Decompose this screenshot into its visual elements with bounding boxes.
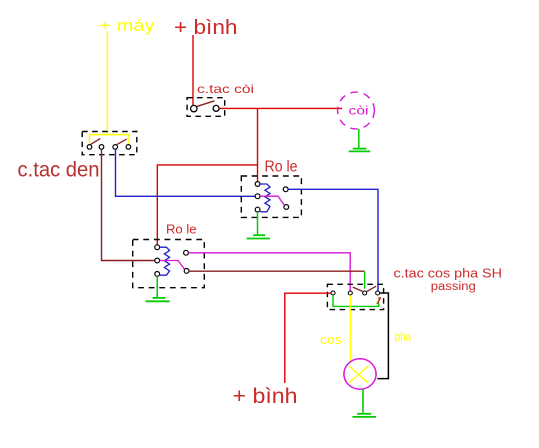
node +bình label (top) xyxy=(174,17,238,39)
relay K2 box xyxy=(133,240,205,288)
switch S1 terminal 1 xyxy=(191,105,197,111)
horn còi dashed circle xyxy=(338,92,375,129)
wire green drop into cos/pha switch terminal 3 xyxy=(364,271,366,289)
switch S2 terminal 3 xyxy=(113,145,118,150)
switch S2 arm a xyxy=(91,139,100,145)
switch S3 label c.tac cos pha SH xyxy=(394,266,503,281)
node +máy label xyxy=(100,17,156,35)
svg-text:+ bình: + bình xyxy=(174,17,238,39)
wire red from +bình down to c.tac còi xyxy=(192,35,194,105)
svg-text:c.tac cos pha SH: c.tac cos pha SH xyxy=(394,266,503,281)
ground under relay K2 xyxy=(146,276,170,301)
switch S3 pha terminal xyxy=(376,291,380,295)
switch S1 terminal 2 xyxy=(213,105,219,111)
relay K2 armature xyxy=(160,261,185,270)
node +bình label (bottom) xyxy=(233,385,298,408)
svg-text:c.tac còi: c.tac còi xyxy=(197,82,254,96)
passing arrow red xyxy=(377,297,381,304)
svg-text:passing: passing xyxy=(431,281,476,293)
wire blue from S2 to relay K1 common xyxy=(116,149,256,196)
net pha label xyxy=(395,330,412,344)
switch S1 arm xyxy=(197,101,215,107)
switch S2 terminal 2 xyxy=(99,145,104,150)
wire yellow header inside c.tac den xyxy=(90,135,130,145)
switch S2 arm b xyxy=(116,139,126,145)
relay K2 NC contact terminal xyxy=(184,250,189,255)
switch S3 cos terminal xyxy=(348,291,352,295)
wire red from S1 to còi horn xyxy=(219,107,342,109)
relay K1 NO contact terminal xyxy=(284,205,289,210)
wire green passing link xyxy=(333,295,379,306)
svg-text:cos: cos xyxy=(320,332,342,347)
switch S1 c.tac còi label xyxy=(197,82,254,96)
switch S1 c.tac còi box xyxy=(187,98,225,117)
ground under relay K1 xyxy=(247,212,270,239)
svg-text:còi: còi xyxy=(349,104,369,118)
switch S3 battery terminal xyxy=(331,291,335,295)
lamp bulb circle xyxy=(344,359,376,389)
relay K2 coil terminal bottom xyxy=(155,272,160,277)
relay K2 coil terminal top xyxy=(155,245,160,250)
switch S3 box xyxy=(327,284,383,309)
relay K1 armature xyxy=(260,196,284,205)
relay K1 coil terminal bottom xyxy=(255,207,260,212)
relay K1 coil terminal top xyxy=(255,182,260,187)
relay K1 label Ro le xyxy=(265,159,298,176)
relay K2 common terminal xyxy=(155,258,160,263)
wire maroon from S2 to relay K2 common xyxy=(102,149,155,260)
switch S2 c.tac den label xyxy=(18,159,100,182)
ground under lamp xyxy=(352,389,376,417)
horn còi label xyxy=(349,104,369,118)
wire red branch to relay K2 coil xyxy=(157,165,257,245)
switch S2 c.tac den box xyxy=(82,132,137,155)
wire red from +bình (bottom) to switch S3 xyxy=(285,293,331,383)
wire maroon from relay K2 contact toward cos/pha switch xyxy=(189,270,365,272)
wire yellow from +máy down to c.tac den xyxy=(106,31,108,135)
ground under còi xyxy=(349,129,371,152)
svg-text:+ bình: + bình xyxy=(233,385,298,408)
switch S3 armature V left xyxy=(353,287,363,291)
relay K1 box xyxy=(241,176,301,217)
relay K1 NC contact terminal xyxy=(283,187,288,192)
relay K1 coil zigzag xyxy=(260,184,270,212)
relay K1 common terminal xyxy=(255,194,260,199)
switch S3 label passing xyxy=(431,281,476,293)
switch S2 terminal 1 xyxy=(87,145,92,150)
svg-text:Ro le: Ro le xyxy=(265,159,298,176)
svg-text:Ro le: Ro le xyxy=(166,222,197,237)
net cos label xyxy=(320,332,342,347)
switch S3 common terminal xyxy=(363,291,367,295)
switch S2 terminal 4 xyxy=(126,145,131,150)
wire blue from relay K1 contact to cos/pha switch pha terminal xyxy=(288,189,378,290)
lamp filament X xyxy=(349,366,368,383)
svg-text:c.tac den: c.tac den xyxy=(18,159,100,182)
relay K2 NO contact terminal xyxy=(184,269,189,274)
wire magenta from relay K2 contact to cos/pha switch cos terminal xyxy=(188,253,350,291)
switch S3 armature V right xyxy=(367,286,376,291)
svg-text:pha: pha xyxy=(395,330,412,344)
relay K2 label Ro le xyxy=(166,222,197,237)
wire yellow cos to lamp xyxy=(349,295,351,361)
relay K2 coil zigzag xyxy=(160,247,170,275)
wire red branch down to relay K1 coil xyxy=(257,108,259,181)
wire black pha to lamp xyxy=(377,293,388,379)
